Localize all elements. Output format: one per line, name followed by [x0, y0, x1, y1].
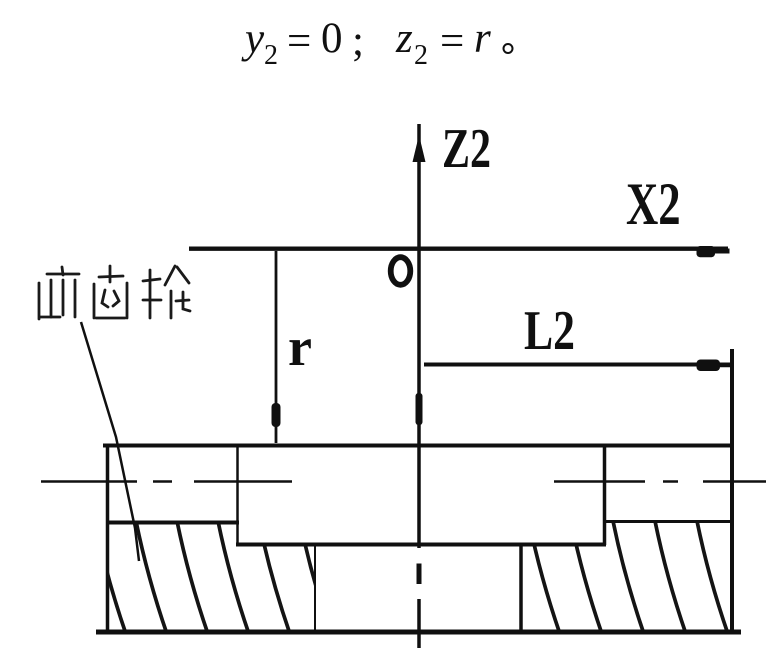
svg-text:2: 2	[264, 40, 278, 71]
svg-text:Z2: Z2	[442, 117, 491, 179]
svg-text:r: r	[288, 317, 312, 377]
right step line	[603, 520, 733, 523]
section right edge / L2 extension line	[730, 349, 734, 633]
svg-text:z: z	[395, 15, 413, 62]
section bottom edge	[96, 630, 741, 635]
svg-text:y: y	[241, 15, 265, 62]
section outline top edge	[103, 444, 733, 448]
chinese label mian (face)	[39, 267, 79, 319]
formula y2 = 0 ; z2 = r	[241, 15, 491, 71]
X2 axis line	[189, 246, 728, 250]
Z2 axis line	[417, 124, 421, 548]
svg-text:=: =	[287, 18, 311, 65]
svg-text:;: ;	[352, 18, 364, 65]
L2 dimension arrowhead	[697, 360, 721, 372]
hub bottom edge	[236, 543, 606, 547]
section left edge	[106, 444, 110, 633]
X2 arrow stub	[714, 249, 730, 254]
Z axis thick mark	[416, 393, 423, 425]
L2 dimension line	[424, 363, 730, 367]
hatch left block	[95, 521, 331, 634]
svg-text:0: 0	[321, 15, 343, 62]
svg-text:=: =	[440, 18, 464, 65]
bore left edge	[314, 544, 316, 632]
bore right edge	[519, 544, 523, 632]
hub right edge	[603, 446, 607, 545]
hatch right block	[529, 521, 728, 634]
vertical centerline short dash	[417, 564, 422, 585]
label o origin	[391, 257, 411, 285]
chinese label chi (tooth)	[94, 266, 127, 318]
vertical centerline long dash	[417, 599, 421, 648]
X2 axis arrowhead	[697, 246, 716, 257]
chinese label lun (wheel)	[143, 266, 190, 318]
Z2 axis arrowhead	[413, 135, 426, 162]
svg-text:X2: X2	[626, 172, 681, 238]
r dimension arrowhead	[272, 403, 281, 427]
L2 arrow stub	[718, 363, 731, 368]
ideographic full stop	[504, 44, 513, 53]
left step line	[106, 521, 239, 525]
hub left edge	[236, 446, 239, 545]
horizontal centerline left dash-dot	[41, 480, 292, 483]
svg-text:2: 2	[414, 40, 428, 71]
r dimension line	[275, 251, 278, 443]
leader line	[81, 322, 139, 561]
horizontal centerline right dash-dot	[554, 480, 766, 483]
svg-text:L2: L2	[524, 299, 575, 361]
svg-text:r: r	[474, 15, 491, 62]
